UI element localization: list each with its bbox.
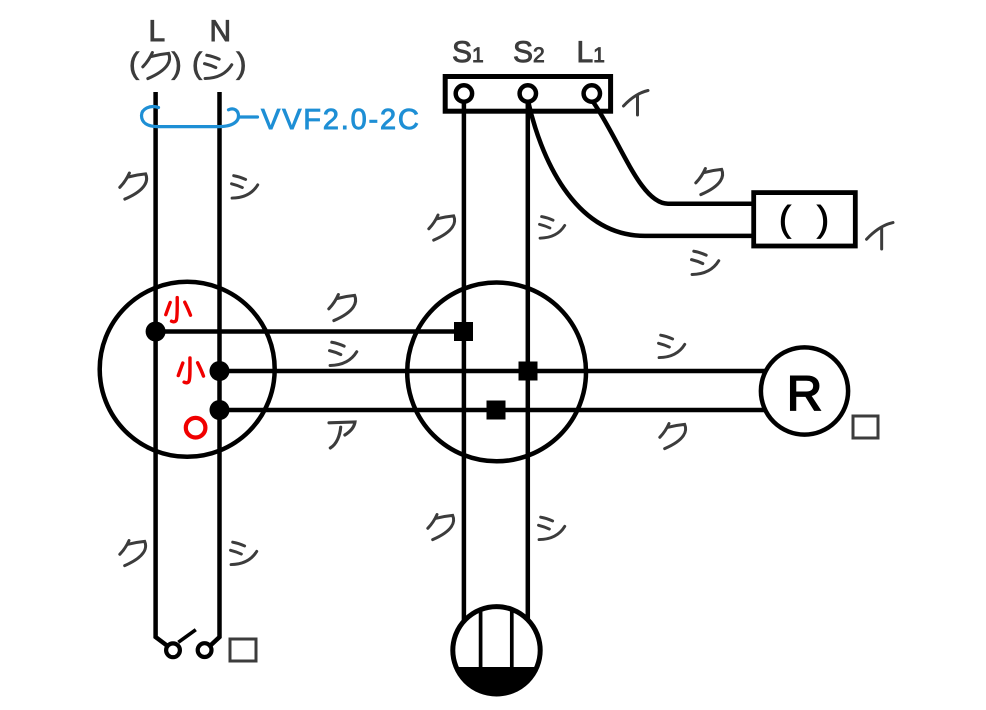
- label SHI on N wire top: [232, 176, 258, 198]
- connector square SHI: [519, 362, 538, 381]
- label KU near lamp R: [660, 424, 686, 449]
- wire A horizontal (dot on N line to lamp R): [220, 408, 767, 413]
- wire KU horizontal (dot on L line to connector in middle box): [156, 329, 464, 334]
- junction box middle (circle): [407, 283, 586, 462]
- label L: [151, 20, 164, 41]
- label S1: [453, 41, 482, 62]
- connector square A-KU: [487, 401, 506, 420]
- wire L vertical (black line from L terminal down to switch): [156, 92, 167, 646]
- label RO square (switch): [230, 639, 256, 661]
- ceiling rosette filled segment: [456, 667, 537, 694]
- switch box (3 terminals): [445, 77, 610, 112]
- label SHI above rosette: [539, 517, 565, 539]
- label SHI on S2 wire: [540, 217, 565, 239]
- terminal S1: [456, 85, 472, 101]
- junction dot on L line: [146, 322, 166, 342]
- lamp R circle: [761, 347, 848, 434]
- label (KU) under L: [143, 53, 170, 79]
- label SMALL red upper: [166, 298, 191, 322]
- wire L1 curve to pilot lamp box: [592, 100, 753, 204]
- label SMALL red lower: [178, 358, 203, 383]
- connector square KU: [454, 322, 473, 341]
- junction dot on N line (A): [210, 400, 230, 420]
- label KU on L wire top: [120, 173, 147, 199]
- label SHI on S2 curve: [692, 251, 719, 274]
- switch lever: [178, 630, 196, 643]
- wire N vertical (from N terminal down to switch): [210, 92, 219, 646]
- label N: [212, 20, 229, 41]
- label SHI bottom left: [231, 542, 257, 564]
- ceiling rosette inner line left: [479, 609, 483, 668]
- label (SHI) under N: [205, 55, 232, 78]
- label KU on horizontal wire: [329, 295, 356, 321]
- label S2: [514, 41, 543, 62]
- label I (switch): [624, 91, 649, 116]
- label KU on S1 wire: [429, 215, 455, 240]
- wire S1 vertical (from switch box S1 terminal down to lamp): [462, 100, 467, 620]
- red ring mark: [186, 418, 206, 438]
- label I (pilot lamp): [867, 223, 893, 249]
- pilot lamp parentheses: [781, 205, 791, 239]
- terminal S2: [520, 85, 536, 101]
- ceiling rosette circle: [453, 607, 540, 694]
- label L1: [579, 41, 604, 62]
- cable marker VVF2.0-2C (blue): [142, 107, 258, 127]
- label KU bottom left: [120, 541, 146, 566]
- label SHI near lamp R: [659, 335, 685, 357]
- label SHI on horizontal wire: [330, 342, 357, 365]
- junction dot on N line (SHI): [210, 361, 230, 381]
- label KU on L1 curve: [696, 169, 723, 195]
- label RO square (lamp R): [853, 416, 878, 438]
- switch contact left: [166, 643, 180, 657]
- wire SHI horizontal (dot on N line to lamp R): [220, 369, 767, 374]
- junction box left (circle): [100, 282, 275, 457]
- ceiling rosette inner line right: [510, 609, 514, 668]
- wire S2 curve to pilot lamp box: [528, 100, 753, 236]
- wire S2 vertical (from switch box S2 terminal down to lamp): [526, 100, 531, 620]
- label VVF2.0-2C: [261, 109, 418, 130]
- pilot lamp box: [754, 193, 856, 246]
- label R: [791, 376, 820, 410]
- label A on horizontal wire: [329, 422, 355, 448]
- label KU above rosette: [428, 515, 454, 540]
- terminal L1: [584, 85, 600, 101]
- switch contact right: [198, 643, 212, 657]
